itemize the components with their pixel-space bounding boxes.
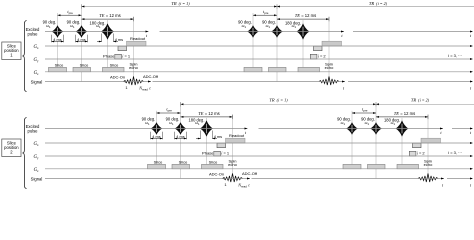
Gx axis slice1 (45, 45, 472, 47)
RF axis slice1 (45, 31, 149, 33)
Gx readout lobe rep2 slice1 (322, 41, 342, 46)
t_pre arrow rep2 slice1 (253, 14, 277, 16)
svg-text:echo: echo (325, 65, 334, 70)
svg-text:4 ms: 4 ms (152, 134, 160, 139)
svg-text:Gy: Gy (34, 155, 39, 160)
spin echo signal rep2 slice1 (319, 77, 339, 86)
svg-text:Slice: Slice (179, 159, 188, 164)
Gx axis slice2 (45, 142, 472, 144)
TE arrow rep1 slice1 (82, 18, 134, 20)
svg-text:90 deg.: 90 deg. (166, 117, 180, 122)
svg-text:echo: echo (228, 162, 237, 167)
svg-text:Gx: Gx (34, 45, 39, 50)
Gy axis slice1 (45, 58, 472, 60)
svg-text:echo: echo (129, 65, 138, 70)
svg-text:i = 3, ···: i = 3, ··· (448, 150, 462, 155)
4ms marker pulseB slice2 (174, 132, 176, 140)
Gx readout lobe rep1 slice1 (127, 41, 147, 46)
spin echo signal rep2 slice2 (418, 174, 438, 183)
t_pre arrow rep1 slice2 (157, 112, 181, 114)
Signal axis slice2 (45, 178, 250, 180)
svg-text:90 deg.: 90 deg. (43, 20, 57, 25)
svg-text:TR (i = 1): TR (i = 1) (171, 1, 190, 6)
Gz slice gradient 180 rep2 slice1 (298, 67, 320, 71)
Gz axis slice2 (45, 168, 472, 170)
svg-text:4 ms: 4 ms (53, 37, 61, 42)
svg-text:Signal: Signal (31, 176, 43, 181)
svg-text:ADC-On: ADC-On (209, 171, 224, 176)
svg-text:Slice: Slice (209, 159, 218, 164)
Gy phase encode blip rep1 slice1 (115, 54, 122, 59)
ADC start marker slice2 (222, 178, 225, 180)
svg-text:TE = 12 ms: TE = 12 ms (394, 111, 415, 116)
svg-text:Readout: Readout (229, 133, 245, 138)
t_pre arrow rep1 slice1 (58, 14, 82, 16)
4ms marker pulseA slice1 (51, 35, 53, 43)
svg-text:4 ms: 4 ms (115, 37, 123, 42)
Gz slice gradient B rep1 slice1 (73, 67, 91, 71)
guide lines train @156 slice2 (156, 111, 158, 165)
brace slice2 (22, 118, 26, 189)
svg-text:ADC-Off: ADC-Off (143, 74, 159, 79)
svg-text:Slice: Slice (80, 62, 89, 67)
Gz slice gradient B rep1 slice2 (172, 164, 190, 168)
Gy phase encode blip rep1 slice2 (214, 151, 221, 156)
svg-text:Gy: Gy (34, 58, 39, 63)
svg-text:90 deg.: 90 deg. (67, 20, 81, 25)
TE arrow rep2 slice2 (376, 116, 428, 118)
Gz slice gradient B rep2 slice1 (269, 67, 287, 71)
svg-text:Slice: Slice (55, 62, 64, 67)
Gx prephaser rep2 slice2 (413, 143, 422, 148)
svg-text:i = 1: i = 1 (221, 151, 230, 156)
svg-text:Gx: Gx (34, 142, 39, 147)
svg-text:TE = 12 ms: TE = 12 ms (295, 13, 316, 18)
svg-text:90 deg.: 90 deg. (337, 117, 351, 122)
Gx readout lobe rep2 slice2 (421, 138, 441, 143)
4ms marker pulseA slice2 (150, 132, 152, 140)
Gz slice gradient 180 rep1 slice2 (202, 164, 224, 168)
t_pre arrow rep2 slice2 (352, 112, 376, 114)
svg-text:i = 3, ···: i = 3, ··· (448, 53, 462, 58)
svg-text:Phase: Phase (103, 54, 115, 59)
ADC start marker slice1 (123, 81, 126, 83)
Gx prephaser rep1 slice2 (217, 143, 226, 148)
svg-text:Signal: Signal (31, 79, 43, 84)
Gz axis slice1 (45, 71, 472, 73)
svg-text:ADC-On: ADC-On (110, 74, 125, 79)
slice position box 1 (2, 42, 21, 60)
4ms marker pulseB slice1 (75, 35, 77, 43)
svg-text:90 deg.: 90 deg. (142, 117, 156, 122)
TR axis slice1 (82, 6, 278, 8)
guide lines train @253 slice1 (252, 13, 254, 67)
Gz slice gradient A rep1 slice2 (148, 164, 166, 168)
svg-text:90 deg.: 90 deg. (262, 20, 276, 25)
svg-text:i = 2: i = 2 (318, 54, 327, 59)
svg-text:i = 2: i = 2 (417, 151, 426, 156)
svg-text:4 ms: 4 ms (176, 134, 184, 139)
svg-text:TR (i = 2): TR (i = 2) (411, 97, 430, 102)
brace slice1 (22, 21, 26, 92)
Gz slice gradient 180 rep1 slice1 (103, 67, 125, 71)
TE arrow rep2 slice1 (277, 18, 329, 20)
Signal axis slice1 (45, 81, 151, 83)
Gz slice gradient A rep2 slice2 (343, 164, 361, 168)
svg-text:Phase: Phase (202, 151, 214, 156)
svg-text:4 ms: 4 ms (77, 37, 85, 42)
Gy axis slice2 (45, 155, 472, 157)
svg-text:i = 1: i = 1 (122, 54, 131, 59)
guide lines train @57 slice1 (57, 13, 59, 67)
spin echo signal rep1 slice2 (223, 174, 243, 183)
Gy phase encode blip rep2 slice2 (409, 151, 416, 156)
svg-text:4 ms: 4 ms (214, 134, 222, 139)
svg-text:TR (i = 1): TR (i = 1) (269, 97, 288, 102)
slice position box 2 (2, 139, 21, 157)
Gx readout lobe rep1 slice2 (226, 138, 246, 143)
svg-text:Slice: Slice (154, 159, 163, 164)
Gz slice gradient A rep2 slice1 (244, 67, 262, 71)
svg-text:echo: echo (424, 162, 433, 167)
svg-text:TE = 12 ms: TE = 12 ms (198, 111, 219, 116)
svg-text:Gz: Gz (34, 168, 39, 173)
Gz slice gradient A rep1 slice1 (49, 67, 67, 71)
4ms marker pulse180 slice2 (200, 131, 202, 140)
svg-text:Readout: Readout (130, 36, 146, 41)
svg-text:Slice: Slice (110, 62, 119, 67)
svg-text:TE = 12 ms: TE = 12 ms (99, 13, 120, 18)
svg-text:90 deg.: 90 deg. (238, 20, 252, 25)
svg-text:90 deg.: 90 deg. (361, 117, 375, 122)
RF axis slice2 (45, 128, 248, 130)
Gz slice gradient 180 rep2 slice2 (397, 164, 419, 168)
Gz slice gradient B rep2 slice2 (368, 164, 386, 168)
svg-text:Gz: Gz (34, 71, 39, 76)
svg-text:pulse: pulse (27, 31, 38, 36)
Gy phase encode blip rep2 slice1 (310, 54, 317, 59)
spin echo signal rep1 slice1 (124, 77, 144, 86)
svg-text:ADC-Off: ADC-Off (242, 171, 258, 176)
guide lines train @352 slice2 (351, 111, 353, 165)
TE arrow rep1 slice2 (181, 116, 233, 118)
4ms marker pulse180 slice1 (101, 34, 103, 43)
svg-text:TR (i = 2): TR (i = 2) (369, 1, 388, 6)
TR axis slice2 (181, 103, 377, 105)
Gx prephaser rep2 slice1 (314, 46, 323, 51)
svg-text:pulse: pulse (27, 128, 38, 133)
Gx prephaser rep1 slice1 (118, 46, 127, 51)
